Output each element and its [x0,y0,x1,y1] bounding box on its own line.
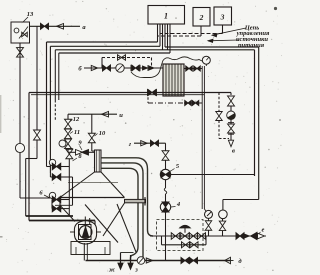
svg-text:4: 4 [176,201,181,208]
bus line D top (right) [165,46,259,48]
gauge G1 link to stem [204,209,206,212]
block 1 (control unit) [148,6,185,25]
wire [230,133,232,140]
orifice circle [116,64,124,72]
valve on x37 line [34,130,41,135]
unit 13 internal valve [22,32,25,37]
feeder inner square [79,225,92,240]
hopper roof right slant [101,172,125,198]
wire valve10 branch [91,114,93,133]
bus A left edge [46,42,48,160]
valve on a-line [41,23,45,29]
svg-text:з: з [134,267,138,274]
valve d2 [190,258,194,264]
valve under G1 [205,221,212,226]
bus line C top (spans) [55,49,254,51]
bypass line [162,244,207,246]
svg-text:д: д [238,258,242,265]
wire [165,160,167,169]
wire [222,231,224,236]
pipe into hopper wall [55,204,73,206]
wire valve4 down [165,212,167,261]
bus C right edge [254,50,256,176]
bus main left edge x29 [28,93,30,221]
bundle pipe 3 [101,168,138,261]
bypass valve 2 [190,242,194,248]
valve 6 [52,196,56,203]
hopper chute outlet [121,252,134,254]
discharge arrow z [130,255,132,263]
valve 9 (check) [68,151,76,153]
standpipe (air distributor) [95,150,102,172]
feeder inner circle [79,226,92,239]
bus C left edge [54,50,56,100]
unit 13 internal arrow [19,27,28,39]
discharge arrow zh [120,253,122,264]
svg-text:е: е [262,227,265,234]
valve row D jog [51,200,53,209]
pressure reducer station dashed box [157,220,204,251]
bypass riser [101,58,103,69]
drain riser dashed [147,93,149,103]
feeder arrow (up, filled) [82,227,89,238]
svg-text:2: 2 [199,13,204,22]
coupling arrow e (filled left) [251,232,258,240]
svg-text:10: 10 [99,130,106,137]
hopper roof left slant [60,172,95,198]
svg-text:5: 5 [176,163,180,170]
vent valve 8 [66,148,73,150]
svg-text:б: б [78,66,82,73]
hopper chute front edge [103,203,125,236]
feeder outlet pipe [83,243,85,261]
valve 11 [65,129,72,134]
tick [228,122,234,124]
svg-text:а: а [82,24,86,31]
svg-text:6: 6 [39,190,43,197]
scan dirt bottom-left [0,236,3,238]
motor valve with actuator circle [59,140,66,147]
svg-text:3: 3 [220,13,225,22]
pressure gauge G0 [202,56,210,64]
wire below valve5 [165,180,167,188]
wire g corner down [165,143,167,150]
wire [230,120,232,124]
bypass dashed line [102,57,152,59]
scan streak left edge [0,95,1,133]
feeder casing [74,221,96,244]
gauge stem double pipe [201,66,203,209]
connection d (open arrow) [225,257,231,264]
svg-text:9: 9 [78,140,82,147]
filter F1 (hatched box) [163,64,184,96]
hopper outlet stub pipe [125,199,146,202]
valve row D [52,205,56,212]
hopper lower-left slant [60,205,75,221]
tick2 [228,133,234,135]
svg-text:ж: ж [109,267,116,274]
label tsep upravleniya (leader arrow) [212,28,246,35]
wire bundle from block 1 [157,24,159,42]
svg-text:8: 8 [78,153,82,160]
hopper roof inner line [68,182,118,184]
impulse pipe over filter [131,57,202,78]
bypass valve right [216,112,223,117]
valve 7 [52,163,56,170]
bypass dashed drop [151,58,153,69]
wire [61,199,69,201]
wire [61,208,69,210]
bypass dashed lower [218,121,220,139]
wire valve5 to right bus [171,174,255,176]
wire unit13 line down to valve 6 [19,153,21,198]
wire [61,176,73,178]
valve 10 [88,133,95,138]
wire [165,194,167,202]
valve below unit 13 [17,48,24,53]
bus line E top (short left) [59,52,170,54]
valve before e [236,233,240,240]
valve b-line [103,65,107,71]
bus E left edge (stub) [58,53,60,100]
flexible joint [164,188,167,194]
wire main to v-chain [230,93,232,96]
svg-text:питания: питания [238,42,265,49]
wire [67,149,69,153]
wire b-line [84,67,163,69]
wire below unit 13 [19,43,21,148]
moisture separator (half filled ball) [227,111,236,120]
control valve body [181,233,185,240]
bus B left edge [49,46,51,173]
hopper rim [60,197,125,199]
svg-text:12: 12 [73,116,80,123]
check valve b-line [91,65,98,70]
wire a-line [30,25,81,27]
valve d1 [181,258,185,264]
wire x37 lower [36,140,38,159]
feeder base [71,242,110,255]
flow meter circle [15,143,24,152]
label istochniki pitaniya (leader arrow) [208,39,238,42]
feeder inlet neck [84,217,86,225]
valve g [151,140,155,146]
bus D corner bottom [223,199,259,201]
valve above 5 [162,151,169,156]
valve 5 (motorized) [160,169,170,179]
bundle pipe 2 [101,163,143,261]
flanged valve b-line [130,65,132,71]
feeder supply pipe upper [26,215,73,217]
bypass valve [118,55,122,61]
check valve on a-line [57,24,64,30]
connection e (open arrow) [258,233,265,239]
feeder supply pipe lower [29,220,95,222]
check valve i-line [102,111,109,117]
hopper left wall [59,198,61,206]
gauge G1 riser [208,230,210,236]
bypass dashed vertical right [218,93,220,112]
bypass riser left [161,236,163,245]
control valve actuator [180,225,191,228]
bus line B top (left) [50,45,160,47]
flow arrow e1 [244,234,250,238]
bus A corner to valve7 [46,160,48,167]
wire from a-line down [36,26,38,130]
valve under P2 [219,221,226,226]
wire x69 vertical [68,159,70,216]
block valve right [198,233,202,240]
bus line A top (left) [47,41,158,43]
wire i-line [68,113,117,115]
bypass valve 1 [182,242,186,248]
unit 13 box [11,22,30,43]
svg-text:11: 11 [74,129,80,136]
unit 13 internal circle [14,28,19,33]
wire valve12 branch corner [67,114,69,119]
svg-text:в: в [232,148,235,155]
block 2 [193,8,210,27]
wire from block 3 (dash-dot) [222,25,224,34]
drain line to stem [184,102,202,104]
check valve d-line [146,258,153,263]
wire [61,166,69,168]
wire [91,143,93,151]
bus B corner to valve [49,173,51,177]
flow arrows b-line [143,66,148,70]
bundle pipe 1 [101,158,153,236]
outlet triangle v [228,140,233,147]
main air line [29,92,231,94]
svg-text:г: г [129,141,132,148]
check valve g [141,141,148,146]
bus D right edge [258,47,260,200]
flanged valve on main line [147,89,149,96]
valve v-chain lower [228,124,235,129]
discharge line d [86,260,231,262]
block valve left [171,233,175,240]
valve 6 actuator circle [49,192,55,198]
valve after filter 2 [194,66,197,71]
valve v-chain upper [228,96,235,101]
bypass riser right [205,236,207,245]
drain dash-dot line [148,102,184,104]
gauge G1 [208,219,210,222]
drain valve 1 [185,101,188,106]
block valve mid [189,233,193,240]
wire g-line [134,142,166,144]
valve after filter 1 [186,66,189,71]
valve 4 (motorized) [160,202,170,212]
filter outlet line [184,68,202,70]
wire [230,106,232,111]
orifice on d-line [137,257,145,265]
hopper chute long slant [85,205,118,243]
hopper chute back edge [117,204,136,252]
svg-text:и: и [119,112,123,119]
drain valve 2 [192,101,195,106]
instrument circle P2 [219,210,228,219]
wire [222,219,224,221]
main bottom line [150,235,258,237]
svg-text:1: 1 [164,12,168,21]
valve 12 [65,119,72,124]
scan dirt mid-right [279,119,281,121]
valve on row B [52,174,56,181]
block 3 [214,7,232,25]
scan dirt top-right [274,7,277,10]
valve 7 actuator circle [49,159,55,165]
wire from block 2 (dash-dot) [200,26,202,36]
